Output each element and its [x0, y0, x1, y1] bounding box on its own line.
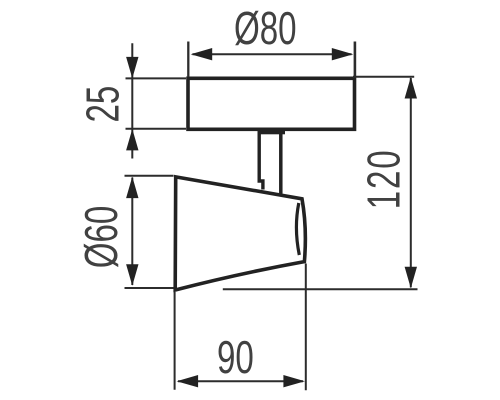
svg-text:90: 90 — [217, 333, 254, 383]
svg-text:25: 25 — [78, 86, 128, 123]
svg-text:Ø60: Ø60 — [77, 206, 127, 269]
svg-text:120: 120 — [359, 148, 409, 209]
svg-text:Ø80: Ø80 — [234, 4, 297, 54]
